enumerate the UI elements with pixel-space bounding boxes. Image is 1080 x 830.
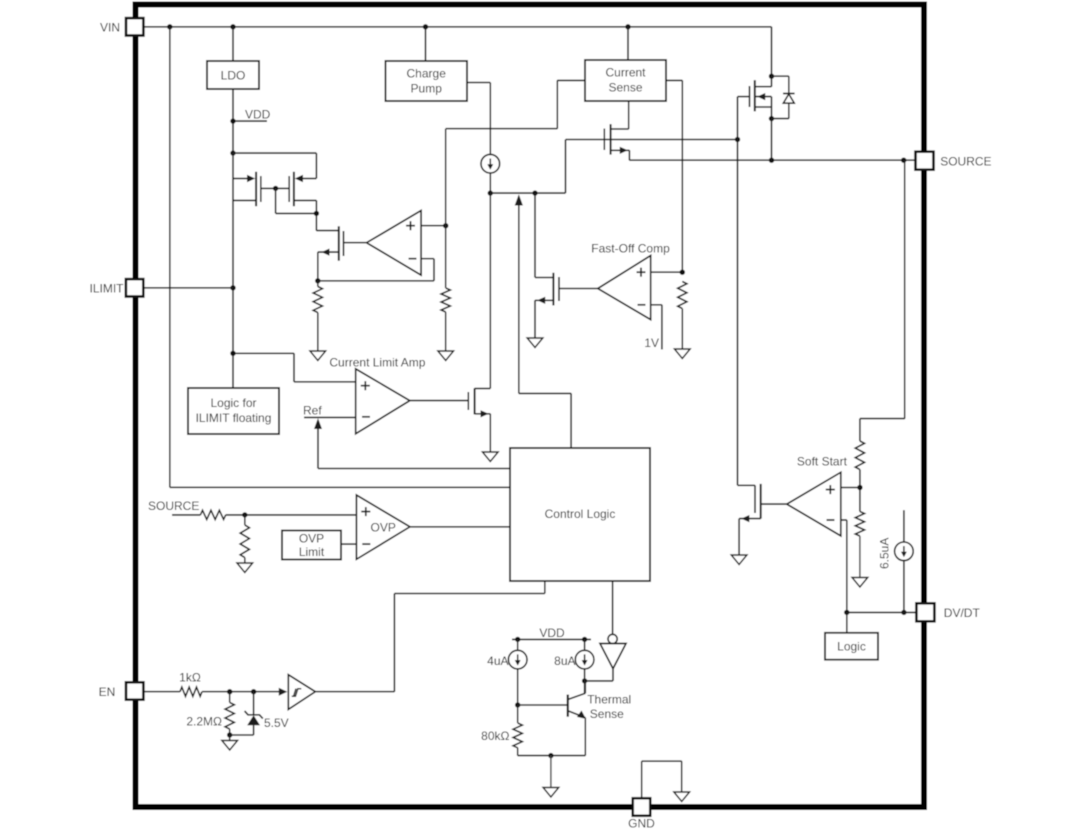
svg-text:5.5V: 5.5V bbox=[264, 716, 289, 730]
svg-text:8uA: 8uA bbox=[554, 654, 575, 668]
svg-text:2.2MΩ: 2.2MΩ bbox=[186, 715, 222, 729]
svg-text:Sense: Sense bbox=[590, 707, 624, 721]
svg-text:VIN: VIN bbox=[100, 20, 120, 34]
svg-text:VDD: VDD bbox=[539, 626, 565, 640]
svg-text:Current Limit Amp: Current Limit Amp bbox=[329, 356, 425, 370]
svg-text:Fast-Off Comp: Fast-Off Comp bbox=[591, 242, 670, 256]
svg-text:Control Logic: Control Logic bbox=[545, 507, 616, 521]
svg-text:Current: Current bbox=[605, 66, 646, 80]
svg-text:VDD: VDD bbox=[245, 107, 271, 121]
svg-text:OVP: OVP bbox=[371, 520, 396, 534]
svg-text:Pump: Pump bbox=[411, 82, 443, 96]
svg-text:SOURCE: SOURCE bbox=[148, 499, 199, 513]
svg-text:Thermal: Thermal bbox=[587, 693, 631, 707]
svg-text:ILIMIT floating: ILIMIT floating bbox=[196, 411, 272, 425]
svg-text:ILIMIT: ILIMIT bbox=[89, 281, 124, 295]
svg-text:Soft Start: Soft Start bbox=[797, 454, 848, 468]
svg-text:DV/DT: DV/DT bbox=[944, 606, 981, 620]
svg-text:1V: 1V bbox=[644, 336, 659, 350]
svg-text:Logic for: Logic for bbox=[210, 396, 256, 410]
svg-text:SOURCE: SOURCE bbox=[940, 154, 991, 168]
svg-text:Limit: Limit bbox=[299, 545, 325, 559]
svg-text:Ref: Ref bbox=[303, 404, 322, 418]
svg-text:LDO: LDO bbox=[221, 69, 246, 83]
svg-text:6.5uA: 6.5uA bbox=[878, 538, 892, 569]
svg-text:1kΩ: 1kΩ bbox=[179, 671, 201, 685]
svg-text:4uA: 4uA bbox=[487, 654, 508, 668]
svg-text:Logic: Logic bbox=[837, 640, 866, 654]
svg-text:GND: GND bbox=[628, 817, 655, 830]
svg-text:EN: EN bbox=[99, 685, 116, 699]
svg-text:80kΩ: 80kΩ bbox=[481, 729, 509, 743]
svg-text:Charge: Charge bbox=[407, 67, 447, 81]
svg-text:OVP: OVP bbox=[299, 532, 324, 546]
svg-text:Sense: Sense bbox=[608, 81, 642, 95]
